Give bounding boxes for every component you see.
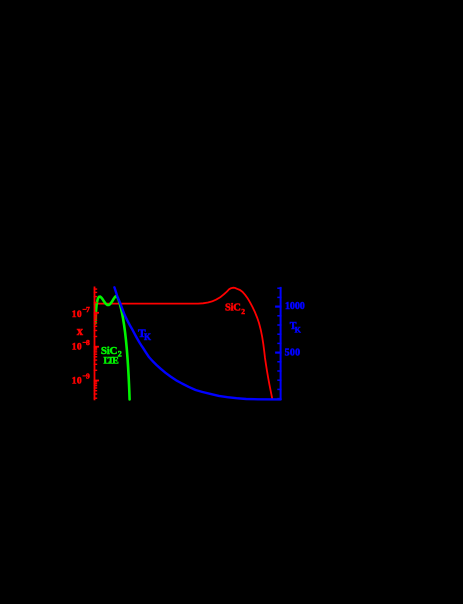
right axis title T_K	[290, 321, 302, 334]
svg-text:K: K	[295, 325, 302, 334]
svg-text:10: 10	[72, 310, 82, 320]
svg-text:SiC: SiC	[101, 345, 118, 357]
red curve: SiC2 abundance model	[95, 288, 273, 399]
red curve label SiC2	[225, 303, 245, 316]
svg-text:−9: −9	[82, 372, 90, 381]
svg-text:1000: 1000	[285, 301, 305, 312]
left tick label 10^-8	[72, 338, 90, 353]
left axis minor ticks	[94, 289, 98, 398]
green curve: SiC2 LTE abundance	[95, 296, 129, 399]
blue curve label T_K (inside plot)	[138, 328, 151, 342]
svg-text:SiC: SiC	[225, 303, 241, 314]
left axis major ticks	[94, 313, 99, 381]
right axis major ticks	[275, 307, 282, 353]
left y-axis (red, log abundance)	[94, 287, 96, 401]
right y-axis (blue, temperature)	[280, 287, 282, 400]
svg-text:500: 500	[285, 347, 301, 358]
green curve label SiC2 LTE	[101, 345, 122, 367]
svg-text:2: 2	[241, 307, 245, 316]
svg-text:x: x	[77, 324, 84, 338]
left tick label 10^-7	[72, 305, 90, 320]
svg-text:10: 10	[72, 376, 82, 386]
svg-text:−8: −8	[82, 338, 90, 347]
svg-text:10: 10	[72, 343, 82, 353]
right axis minor ticks	[277, 288, 281, 398]
left tick label 10^-9	[72, 372, 90, 387]
svg-text:K: K	[144, 332, 151, 342]
svg-text:LTE: LTE	[104, 356, 119, 366]
blue curve: gas kinetic temperature T_K	[114, 287, 280, 399]
svg-text:−7: −7	[82, 305, 90, 314]
